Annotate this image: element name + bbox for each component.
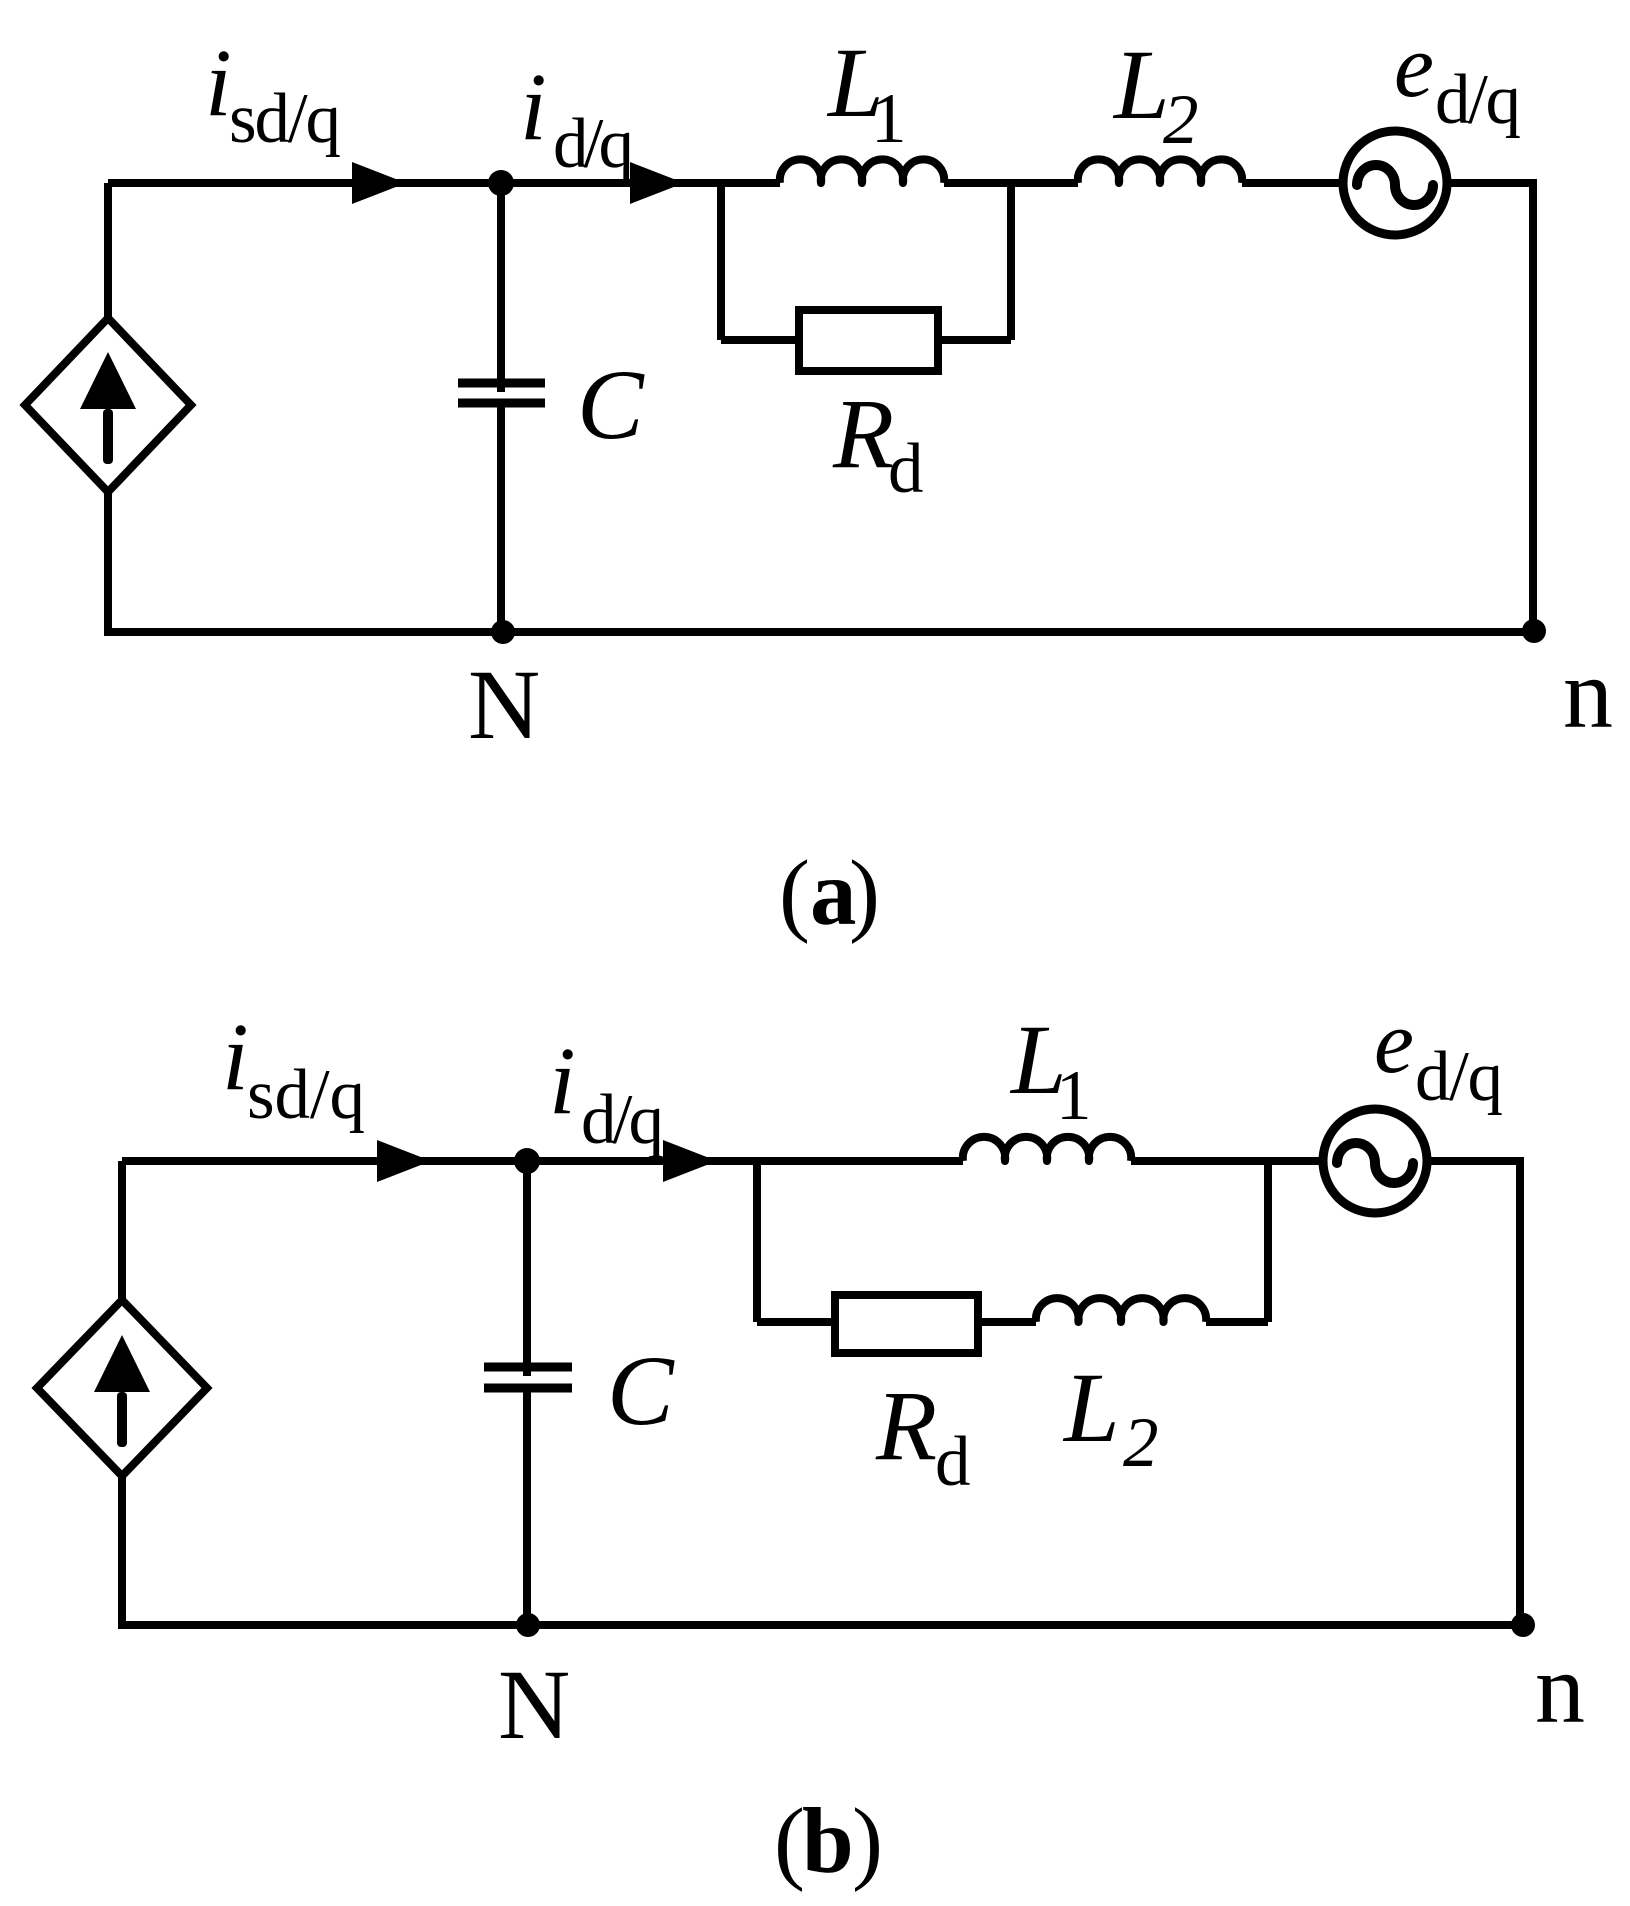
capacitor C plates (a)	[458, 383, 545, 403]
arrowhead i_d/q (a)	[630, 162, 684, 204]
wire left vertical upper (a)	[104, 183, 112, 318]
controlled current source diamond (a)	[25, 318, 191, 492]
wire capacitor branch upper (b)	[523, 1161, 531, 1376]
wire bottom rail (b)	[118, 1621, 1524, 1629]
wire between L1 and L2 (a)	[944, 179, 1078, 187]
wire parallel-section left vertical (b)	[753, 1161, 761, 1322]
svg-text:n: n	[1563, 638, 1613, 749]
wire L2 to right vertical (b)	[1206, 1318, 1268, 1326]
wire top rail segment source-to-L1 (b)	[122, 1157, 963, 1165]
node N dot (a)	[491, 620, 515, 644]
wire parallel-section left vertical (a)	[717, 183, 725, 340]
svg-text:C: C	[607, 1335, 675, 1446]
capacitor C plates (b)	[484, 1367, 572, 1388]
inductor L1 (a)	[780, 159, 944, 183]
wire L2 to source e (a)	[1242, 179, 1343, 187]
wire right vertical (a)	[1529, 179, 1537, 632]
wire parallel-section right vertical (b)	[1264, 1161, 1272, 1322]
wire parallel-section right vertical (a)	[1007, 183, 1015, 340]
junction node dot top (a)	[488, 170, 514, 196]
node n dot (a)	[1522, 619, 1546, 643]
wire bottom rail (a)	[104, 628, 1537, 636]
arrowhead i_sd/q (b)	[377, 1140, 431, 1182]
controlled current source diamond (b)	[37, 1300, 207, 1476]
wire capacitor branch upper (a)	[497, 183, 505, 392]
arrowhead i_sd/q (a)	[352, 162, 406, 204]
sine symbol inside source (b)	[1337, 1143, 1413, 1183]
current arrow inside source (b)	[94, 1335, 150, 1392]
wire L1 to source e (b)	[1131, 1157, 1323, 1165]
wire to resistor Rd left (b)	[757, 1318, 835, 1326]
wire left vertical lower (a)	[104, 492, 112, 636]
wire capacitor branch lower (a)	[497, 403, 505, 632]
arrowhead i_d/q (b)	[663, 1140, 717, 1182]
svg-text:N: N	[498, 1649, 570, 1760]
wire left vertical lower (b)	[118, 1476, 126, 1629]
wire top rail segment source-to-L1 (a)	[108, 179, 780, 187]
inductor L2 (a)	[1078, 159, 1242, 183]
wire capacitor branch lower (b)	[523, 1388, 531, 1625]
inductor L2 (b)	[1036, 1298, 1206, 1322]
wire source to right corner (a)	[1447, 179, 1537, 187]
inductor L1 (b)	[963, 1137, 1131, 1161]
svg-text:(b): (b)	[774, 1790, 883, 1893]
node n dot (b)	[1511, 1613, 1535, 1637]
svg-text:(a): (a)	[779, 842, 880, 945]
wire source to right corner (b)	[1427, 1157, 1524, 1165]
wire right vertical (b)	[1516, 1157, 1524, 1625]
wire resistor Rd to inductor L2 (b)	[978, 1318, 1036, 1326]
current arrow inside source (a)	[80, 352, 136, 409]
wire left vertical upper (b)	[118, 1161, 126, 1300]
wire from resistor Rd right (a)	[938, 336, 1011, 344]
AC voltage source e_d/q circle (b)	[1323, 1109, 1427, 1213]
svg-text:C: C	[577, 349, 645, 460]
svg-text:N: N	[468, 649, 540, 760]
junction node dot top (b)	[514, 1148, 540, 1174]
sine symbol inside source (a)	[1357, 165, 1433, 205]
resistor Rd rectangle (b)	[835, 1295, 978, 1353]
resistor Rd rectangle (a)	[799, 310, 938, 371]
node N dot (b)	[516, 1613, 540, 1637]
wire to resistor Rd left (a)	[721, 336, 799, 344]
AC voltage source e_d/q circle (a)	[1343, 131, 1447, 235]
svg-text:n: n	[1535, 1633, 1585, 1744]
